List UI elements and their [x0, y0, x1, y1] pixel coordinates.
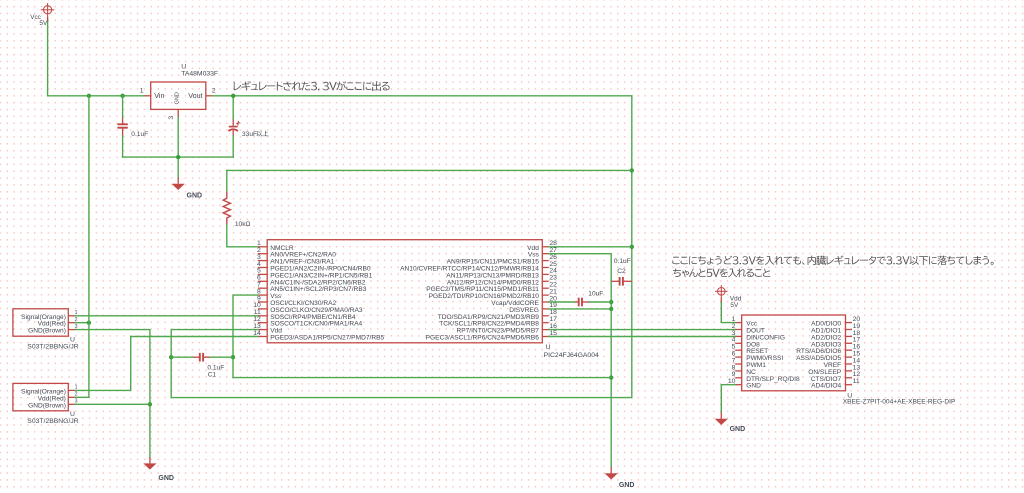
svg-text:GND: GND — [187, 192, 203, 199]
capacitor 0.1uF (regulator input) — [117, 117, 148, 138]
svg-text:U: U — [181, 63, 186, 70]
wire PIC Vss pin 27 to ground trunk — [549, 254, 612, 467]
voltage regulator U TA48M033F — [140, 63, 218, 119]
wire PIC RB6 pin 15 to XBee DIN — [549, 336, 736, 338]
wire 3.3V output rail — [212, 95, 632, 97]
wire regulator GND pin down — [177, 117, 179, 177]
svg-text:10kΩ: 10kΩ — [235, 221, 251, 228]
svg-text:Vout: Vout — [188, 91, 202, 100]
junction 5V rail / servo supply branch — [87, 94, 91, 98]
wire input cap bottom to ground rail — [122, 136, 124, 157]
wire DISVREG pin 19 to ground trunk — [549, 308, 612, 310]
junction 5V rail / input cap — [120, 94, 124, 98]
wire servo2 GND — [75, 403, 150, 405]
svg-text:C1: C1 — [208, 371, 217, 378]
wire 5V input rail to regulator Vin — [48, 95, 145, 97]
svg-text:0.1uF: 0.1uF — [131, 131, 148, 138]
svg-text:GND(Brown): GND(Brown) — [28, 328, 66, 335]
svg-text:Vin: Vin — [154, 91, 164, 100]
value label 10uF — [588, 290, 603, 297]
wire Vcc vertical to input rail — [47, 22, 49, 96]
annotation: make sure to supply 5V — [673, 268, 770, 277]
wire C1 left lead — [171, 356, 193, 358]
junction servo ground / servo2 GND — [148, 402, 152, 406]
value label 33uF以上 (kanji part) — [256, 131, 268, 137]
wire Vdd branch return to 3.3V trunk — [171, 397, 632, 399]
ground symbol (logic ground) — [605, 467, 635, 489]
svg-text:SOSCO/T1CK/CN0/PMA1/RA4: SOSCO/T1CK/CN0/PMA1/RA4 — [270, 321, 362, 328]
annotation: regulated 3.3V comes out here — [234, 81, 390, 91]
junction ground trunk / C1 return — [609, 375, 613, 379]
junction ground trunk / DISVREG pin 19 — [609, 307, 613, 311]
svg-text:AN5/C1IN+/SCL2/RP3/CN7/RB3: AN5/C1IN+/SCL2/RP3/CN7/RB3 — [270, 286, 367, 293]
junction ground rail / regulator GND — [176, 155, 180, 159]
wire NMCLR pull-up horizontal — [227, 169, 632, 171]
ground symbol (servo ground) — [143, 457, 174, 482]
svg-text:33uF: 33uF — [242, 131, 257, 138]
value label C2 — [614, 258, 631, 275]
power symbol Vdd (XBee 5V supply) — [715, 285, 742, 309]
wire 5V branch vertical — [75, 96, 89, 398]
wire servo1 GND down — [75, 330, 150, 457]
svg-text:Vdd(Red): Vdd(Red) — [38, 395, 66, 402]
svg-text:S03T/2BBNG/JR: S03T/2BBNG/JR — [27, 343, 78, 350]
wire 33uF top lead to output rail — [232, 96, 234, 119]
svg-text:3: 3 — [168, 116, 175, 120]
svg-text:GND: GND — [619, 482, 635, 489]
svg-text:PGED3/ASDA1/RP5/CN27/PMD7/RB5: PGED3/ASDA1/RP5/CN27/PMD7/RB5 — [270, 335, 384, 342]
svg-text:10uF: 10uF — [588, 290, 603, 297]
junction 3.3V rail / 33uF cap — [231, 94, 235, 98]
power symbol Vcc (5V supply) — [30, 3, 54, 27]
junction ground trunk / 10uF cap — [609, 300, 613, 304]
svg-text:1: 1 — [140, 87, 144, 94]
svg-text:AD4/DIO4: AD4/DIO4 — [811, 383, 841, 390]
svg-text:11: 11 — [853, 378, 860, 385]
ground symbol (regulator) — [172, 177, 202, 199]
servo connector U S03T/2BBNG/JR (lower) — [13, 383, 79, 425]
wire Vss branch return to ground trunk — [233, 377, 611, 379]
svg-text:2: 2 — [212, 87, 216, 94]
junction 3.3V trunk / NMCLR pull-up — [630, 168, 634, 172]
junction 3.3V trunk / PIC Vdd pin 28 — [630, 245, 634, 249]
svg-text:U: U — [546, 344, 551, 351]
wire Vcap pin 20 lead — [549, 301, 575, 303]
capacitor 33uF polarized (regulator output) — [228, 118, 257, 137]
servo connector U S03T/2BBNG/JR (upper) — [13, 309, 79, 351]
wire servo1 Vdd to 5V branch — [75, 322, 89, 324]
svg-text:GND: GND — [158, 475, 174, 482]
wire XBee GND pin 10 down — [721, 385, 735, 413]
wire 33uF bottom to ground rail — [232, 136, 234, 157]
annotation: feeding exactly 3.3V drops below 3.3V due to internal regulator — [672, 256, 993, 266]
svg-text:PIC24FJ64GA004: PIC24FJ64GA004 — [544, 352, 599, 359]
svg-text:5V: 5V — [39, 20, 48, 27]
wire 3.3V vertical trunk — [631, 96, 633, 398]
svg-text:14: 14 — [253, 330, 261, 337]
wire ground rail under regulator — [123, 156, 234, 158]
svg-text:C2: C2 — [617, 268, 626, 275]
wire C1 right lead — [210, 356, 233, 358]
svg-text:GND(Brown): GND(Brown) — [28, 402, 66, 409]
capacitor 10uF (Vcap) — [575, 298, 589, 307]
wire PIC Vss pin 8 branch — [233, 295, 258, 378]
value label C1 — [207, 364, 224, 378]
svg-text:5V: 5V — [730, 302, 739, 309]
wire 10uF right lead — [589, 301, 612, 303]
wire pull-up top lead — [226, 170, 228, 191]
junction C1 right / Vss branch — [231, 355, 235, 359]
radio module U XBEE-Z7PIT-004+AE-XBEE-REG-DIP — [728, 315, 956, 405]
svg-text:15: 15 — [549, 330, 557, 337]
wire servo2 signal to PIC RB5 pin 14 — [75, 337, 258, 391]
capacitor C1 0.1uF (PIC decoupling) — [194, 353, 210, 362]
junction C1 left / Vdd branch — [169, 355, 173, 359]
svg-text:0.1uF: 0.1uF — [207, 364, 224, 371]
wire PIC RB7 pin 16 to XBee DOUT — [549, 329, 736, 331]
svg-text:S03T/2BBNG/JR: S03T/2BBNG/JR — [27, 418, 78, 425]
resistor R 10kOhm (NMCLR pull-up) — [223, 192, 250, 229]
wire Vdd down to XBee Vcc pin 1 — [721, 303, 735, 323]
wire pull-up bottom to PIC pin 1 NMCLR — [227, 225, 258, 247]
svg-text:TA48M033F: TA48M033F — [181, 71, 218, 78]
svg-text:GND: GND — [746, 383, 761, 390]
wire input cap top lead — [122, 96, 124, 118]
capacitor C2 0.1uF (Vdd decoupling) — [611, 277, 632, 286]
wire PIC Vdd pin 28 to 3.3V trunk — [549, 246, 632, 248]
junction 5V branch / servo1 Vdd — [87, 321, 91, 325]
ground symbol (XBee) — [715, 412, 745, 433]
svg-text:GND: GND — [730, 426, 746, 433]
microcontroller U PIC24FJ64GA004 — [253, 240, 599, 359]
svg-text:GND: GND — [174, 92, 180, 104]
wire PIC Vdd pin 13 branch — [171, 330, 258, 398]
wire servo1 signal to PIC RB4 pin 11 — [75, 315, 258, 317]
svg-text:0.1uF: 0.1uF — [614, 258, 631, 265]
svg-text:XBEE-Z7PIT-004+AE-XBEE-REG-DIP: XBEE-Z7PIT-004+AE-XBEE-REG-DIP — [843, 398, 956, 405]
svg-text:PGEC3/ASCL1/RP6/CN24/PMD6/RB6: PGEC3/ASCL1/RP6/CN24/PMD6/RB6 — [426, 335, 540, 342]
